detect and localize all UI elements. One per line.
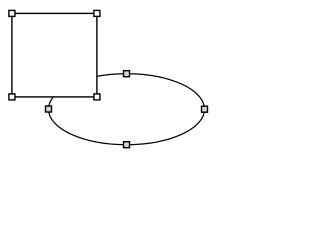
handle square top-right	[94, 10, 100, 16]
ellipse	[49, 74, 205, 145]
handle ellipse left	[46, 106, 52, 112]
handle square bottom-right	[94, 94, 100, 100]
square	[12, 13, 97, 97]
handle square top-left	[9, 10, 15, 16]
handle square bottom-left	[9, 94, 15, 100]
handle ellipse bottom	[124, 142, 130, 148]
handle ellipse top	[124, 71, 130, 77]
handle ellipse right	[202, 106, 208, 112]
